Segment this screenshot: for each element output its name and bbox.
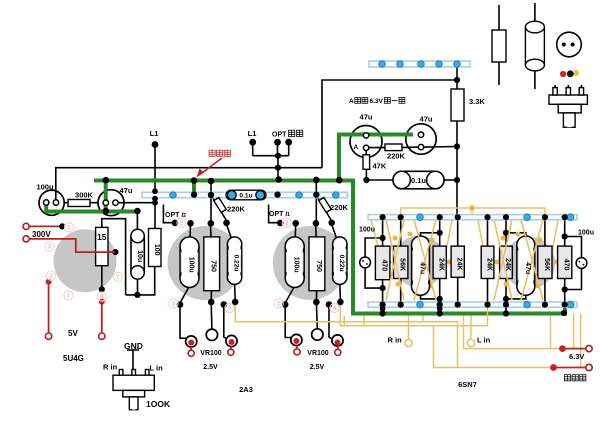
pilot wire <box>554 367 587 369</box>
heater bracket over 6SN7-1 <box>401 208 545 215</box>
wire 6SN7-1 24K2 line <box>457 220 459 302</box>
ground drop to 47u filter <box>104 181 108 212</box>
svg-text:470: 470 <box>563 259 570 271</box>
svg-text:6.3V: 6.3V <box>569 352 584 361</box>
tube socket 6SN7-1 body <box>393 236 445 288</box>
wire 6SN7-2 470 line <box>564 220 566 305</box>
ghost pin numbers 2A3-1 <box>169 218 234 313</box>
wire jumper U over 5U4G <box>102 219 126 295</box>
wire 220K diag lead 2 <box>318 198 333 222</box>
filament run 2A3 y321 <box>235 302 457 368</box>
R in drop <box>408 316 410 340</box>
capacitor 0.1u A-area <box>393 171 444 189</box>
svg-text:470: 470 <box>381 259 388 271</box>
ground box left edge <box>351 179 355 314</box>
wire node 3.3K-top to left rail <box>322 80 457 168</box>
wire 6SN7-1 470 line <box>382 220 384 316</box>
capacitor 47u B body <box>406 124 436 154</box>
capacitor 0.1u coupling R <box>226 190 266 200</box>
wire 2A3-2 pin4 to term <box>329 306 332 339</box>
svg-text:100u: 100u <box>578 230 594 237</box>
junction dots 6SN7-1 <box>380 214 461 317</box>
wire 100 resistor bottom rail <box>126 267 155 295</box>
heater tan dots <box>387 205 560 288</box>
wire 6SN7-2 47u elbows <box>506 233 526 299</box>
riser 574 <box>573 314 575 349</box>
svg-text:1OOK: 1OOK <box>146 399 171 409</box>
riser 580 <box>580 314 582 368</box>
wire 15 bottom <box>101 266 103 290</box>
tube socket 2A3-1 body <box>168 226 242 300</box>
6.3V terminal <box>586 345 592 351</box>
wire L1a drop <box>154 145 156 229</box>
R in jack <box>405 339 412 346</box>
ground lower bar <box>45 210 138 214</box>
svg-text:0.22u: 0.22u <box>338 255 345 272</box>
resistor 100 <box>149 229 162 267</box>
resistor 220K A-area <box>385 144 402 151</box>
wire 47uA right cap to 3.3K line <box>424 146 458 149</box>
capacitor 100u 2A3-1 <box>180 237 199 288</box>
junction dots top area <box>152 77 461 183</box>
wire L1b dot lead <box>252 142 253 144</box>
wire 2A3-2 cap stems <box>286 225 341 303</box>
heater diag 6SN7-1 b <box>386 220 404 300</box>
svg-text:220K: 220K <box>330 203 349 212</box>
5V wire 2 <box>101 302 103 333</box>
svg-text:300K: 300K <box>75 191 94 200</box>
heater diag 6SN7-1 e <box>371 220 452 262</box>
svg-text:750: 750 <box>315 260 322 272</box>
wire 6SN7-1 24K line <box>439 220 441 316</box>
label ground point <box>209 150 215 156</box>
wire 6SN7-2 24K4 line <box>505 220 507 316</box>
strip 6SN7 lower lugs <box>417 301 574 308</box>
svg-text:2.5V: 2.5V <box>310 364 325 371</box>
svg-text:220K: 220K <box>387 152 406 161</box>
svg-text:24K: 24K <box>504 258 511 271</box>
tube socket 2A3-2 body <box>273 226 347 300</box>
terminal strip 6SN7 upper <box>368 215 577 220</box>
5V terminal 2 <box>99 333 105 339</box>
svg-text:2.5V: 2.5V <box>203 364 218 371</box>
heater diag 6SN7-2 a <box>494 220 512 300</box>
spare socket top view <box>557 32 582 57</box>
ghost pin numbers 2A3-2 <box>274 218 339 313</box>
wire gnd drop x212 to 2A3 pin <box>210 181 212 223</box>
heater diag 6SN7-1 a <box>386 220 404 300</box>
L in drop <box>470 316 472 340</box>
wire B+ rail y=167.7 <box>56 168 322 203</box>
capacitor 47u 6SN7-2 <box>517 236 535 295</box>
svg-text:100: 100 <box>153 244 160 256</box>
junction dots ground bus <box>103 176 343 214</box>
heater diag 6SN7-2 e <box>478 220 558 262</box>
5V terminal 1 <box>45 333 51 339</box>
junction dots left area <box>53 200 141 298</box>
svg-text:R in: R in <box>103 363 118 372</box>
svg-text:47u: 47u <box>419 262 426 274</box>
svg-text:VR100: VR100 <box>200 350 222 357</box>
heater diag 6SN7-1 d <box>414 220 436 300</box>
wire 2A3-2 pin7 to white term <box>315 303 318 329</box>
ghost pin numbers 5U4G <box>45 223 123 301</box>
riser 344 <box>343 316 345 326</box>
spare resistor top right <box>492 5 506 85</box>
svg-text:300V: 300V <box>32 230 51 239</box>
svg-text:A: A <box>349 98 354 105</box>
wire 2A3-1 pin7 to white term <box>210 303 213 329</box>
resistor 56K 6SN7-1 <box>394 246 408 278</box>
capacitor 0.22u 2A3-2 <box>333 237 347 284</box>
svg-text:56K: 56K <box>543 258 550 271</box>
svg-text:0.1u: 0.1u <box>411 176 426 185</box>
wire 6SN7-2 24K3 line <box>487 220 489 302</box>
resistor 24K 6SN7-1 <box>433 246 446 278</box>
wire top-strip to 3.3K node <box>456 67 458 89</box>
resistor 470 6SN7-1 <box>375 246 390 280</box>
wire OPT primary bracket <box>253 142 289 179</box>
svg-text:10u: 10u <box>136 250 143 262</box>
svg-text:2A3: 2A3 <box>239 385 253 394</box>
svg-text:VR100: VR100 <box>307 350 329 357</box>
terminal strip 2A3 <box>142 192 348 197</box>
heater diag overlay 6SN7-2 <box>494 220 543 300</box>
capacitor 47u A body <box>350 126 382 158</box>
pilot terminal <box>586 364 592 370</box>
wire 6SN7-1 47u elbows <box>421 233 440 299</box>
svg-text:OPT l1: OPT l1 <box>269 211 290 218</box>
terminals 2A3-2 <box>291 329 343 356</box>
capacitor 100u 2A3-2 <box>285 237 304 288</box>
resistor 56K 6SN7-2 <box>538 246 552 278</box>
wire 47K bottom to 0.1u left <box>366 169 394 180</box>
ground wire A-area horizontal <box>339 133 413 137</box>
L in jack <box>467 339 474 346</box>
heater diag 6SN7-1 c <box>414 220 436 300</box>
svg-text:24K: 24K <box>486 258 493 271</box>
svg-text:L in: L in <box>150 364 164 373</box>
svg-text:L in: L in <box>477 336 491 345</box>
svg-text:0.1u: 0.1u <box>239 193 252 200</box>
svg-text:24K: 24K <box>456 258 463 271</box>
svg-text:220K: 220K <box>227 205 246 214</box>
wire 3.3K bottom to strip <box>456 121 458 215</box>
terminals 2A3-1 <box>186 329 238 356</box>
wire 2A3-1 pin1 to term <box>180 306 186 338</box>
capacitor 47u 6SN7-1 <box>412 236 430 295</box>
junction dots strip1 <box>152 188 319 205</box>
svg-text:47u: 47u <box>524 262 531 274</box>
strip 6SN7 upper lugs <box>417 214 574 221</box>
tube socket 6SN7-2 body <box>503 237 555 289</box>
5V pin dot <box>46 279 52 285</box>
wire 47uA left pin to 220K to right pin <box>369 146 419 149</box>
svg-text:47u: 47u <box>120 186 133 195</box>
resistor 24K2 6SN7-1 <box>451 246 464 277</box>
wire OPT l1 to 2A3-2 <box>269 205 279 223</box>
heater diag 6SN7-2 d <box>521 220 543 300</box>
capacitor 0.22u 2A3-1 <box>227 237 241 284</box>
volume pot 100K <box>113 350 154 410</box>
wire 100u to 300K to 47u <box>64 202 99 204</box>
svg-text:100u: 100u <box>293 257 300 273</box>
svg-text:5V: 5V <box>68 329 78 338</box>
svg-text:GND: GND <box>124 341 143 351</box>
capacitor 100u input body <box>39 190 64 215</box>
svg-text:5U4G: 5U4G <box>63 354 84 363</box>
wire 47K top lead <box>365 150 367 154</box>
resistor 15 <box>96 227 108 265</box>
ground wire riser <box>337 133 341 181</box>
300V wire 1 <box>29 225 62 227</box>
capacitor 47uA pins <box>363 133 368 151</box>
svg-text:47u: 47u <box>360 113 373 122</box>
svg-text:OPT: OPT <box>272 132 287 139</box>
run to 6.3V <box>464 316 563 349</box>
power connector bottom right <box>549 85 587 127</box>
300V wire 2 <box>29 239 115 252</box>
svg-text:6.3V: 6.3V <box>370 98 384 105</box>
svg-text:R in: R in <box>388 336 403 345</box>
svg-text:47u: 47u <box>420 115 433 124</box>
ground box right stub <box>563 303 567 316</box>
resistor 24K4 6SN7-2 <box>500 246 513 278</box>
resistor 3.3K <box>451 89 464 121</box>
svg-text:A: A <box>354 144 359 151</box>
capacitor 47u filter pins <box>103 200 118 205</box>
wire 6SN7-1 100u elbows <box>365 238 383 288</box>
wire 0.1u right to 3.3K line <box>443 179 457 181</box>
run to pilot lamp <box>434 326 554 368</box>
6.3V wire <box>563 348 587 350</box>
spare capacitor top right <box>525 3 544 89</box>
terminal strip 6SN7 lower <box>368 302 577 307</box>
svg-text:OPT l2: OPT l2 <box>165 212 186 219</box>
tube socket 5U4G body <box>54 229 117 292</box>
svg-text:100u: 100u <box>36 183 54 192</box>
wire 2A3-1 pin4 to term <box>224 306 227 339</box>
300V wire overlay over 15 <box>94 251 115 253</box>
wire drop x317 to 2A3-2 pin <box>315 180 317 223</box>
svg-text:L1: L1 <box>248 129 257 138</box>
wire 10u leads <box>136 211 138 295</box>
capacitor 100u 6SN7-2 <box>576 258 587 269</box>
svg-text:750: 750 <box>210 260 217 272</box>
wire 6SN7-1 56K line <box>400 220 402 302</box>
svg-text:0.22u: 0.22u <box>233 255 240 272</box>
svg-text:47K: 47K <box>373 162 387 171</box>
wire 47u right pin to L1 drop <box>118 202 155 204</box>
junction dots 6SN7-2 <box>484 214 567 317</box>
resistor 470 6SN7-2 <box>558 246 572 278</box>
capacitor 100u input pins <box>44 200 59 205</box>
svg-text:100u: 100u <box>188 257 195 273</box>
ground-point arrow <box>200 158 222 175</box>
300V terminal 2 <box>23 236 29 242</box>
heater diag overlay 6SN7-1 <box>386 220 436 300</box>
svg-text:6SN7: 6SN7 <box>458 380 477 389</box>
5V pin dot 2 <box>99 299 105 305</box>
resistor 750 2A3-2 <box>309 237 325 291</box>
6.3V dot <box>559 345 566 352</box>
svg-text:3.3K: 3.3K <box>469 97 485 106</box>
riser 550 <box>550 316 552 349</box>
ground stub 100u left pin <box>44 203 48 212</box>
capacitor 47uB pins <box>418 132 423 150</box>
junction dots 2A3-2 <box>277 220 344 308</box>
capacitor 10u <box>131 229 144 279</box>
300V terminal 1 <box>23 223 29 229</box>
svg-text:24K: 24K <box>438 258 445 271</box>
capacitor 100u 6SN7-1 <box>360 257 371 268</box>
strip top lugs <box>379 61 461 68</box>
resistor 750 2A3-1 <box>204 237 220 291</box>
riser 423 <box>422 316 424 322</box>
wire 2A3-1 cap stems <box>181 225 236 303</box>
wire OPT l2 to 2A3-1 <box>163 205 173 223</box>
wire 6SN7-2 56K line <box>544 220 546 302</box>
wire 6SN7-2 100u elbows <box>565 237 582 290</box>
resistor 220K diag 1 <box>214 197 227 212</box>
heater diag 6SN7-2 b <box>494 220 512 300</box>
wire 2A3-2 pin1 to term <box>285 306 291 338</box>
svg-text:L1: L1 <box>150 129 159 138</box>
indicator dots red black yellow <box>560 70 579 77</box>
terminal strip top <box>369 61 470 67</box>
label pilot lamp <box>565 375 571 381</box>
capacitor 47u filter body <box>98 190 124 216</box>
heater diag 6SN7-2 c <box>521 220 543 300</box>
svg-text:100u: 100u <box>359 227 375 234</box>
pilot dot <box>550 364 557 371</box>
resistor 220K diag 2 <box>319 197 332 212</box>
wire 220K diag lead 1 <box>213 198 228 222</box>
ground bus main <box>94 179 355 183</box>
resistor 24K3 6SN7-2 <box>481 246 494 278</box>
5V wire 1 <box>48 282 50 333</box>
ground point drop to strip <box>192 181 196 195</box>
filament run 2A3-2 y325 <box>340 302 487 326</box>
ground box bottom <box>351 312 567 316</box>
junction dots 2A3-1 <box>172 220 239 308</box>
resistor 300K <box>68 200 90 207</box>
svg-text:56K: 56K <box>399 258 406 271</box>
resistor 47K <box>363 155 370 170</box>
svg-text:15: 15 <box>97 232 107 242</box>
riser 363 <box>363 316 365 326</box>
strip 2A3 lugs <box>170 192 339 199</box>
